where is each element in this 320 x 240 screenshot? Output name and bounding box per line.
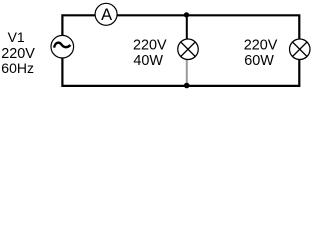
svg-text:220V: 220V [244, 38, 278, 54]
svg-text:60Hz: 60Hz [1, 60, 34, 76]
svg-text:V1: V1 [8, 29, 25, 45]
svg-text:40W: 40W [133, 53, 163, 69]
svg-text:60W: 60W [244, 53, 274, 69]
svg-text:A: A [101, 6, 112, 24]
svg-text:220V: 220V [133, 38, 167, 54]
